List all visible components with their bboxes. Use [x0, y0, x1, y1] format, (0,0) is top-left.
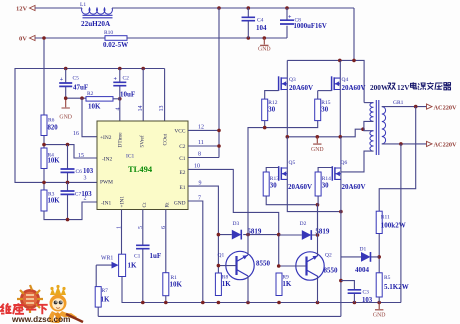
- wire pin 9 E1 to Q1 base branch: [188, 186, 218, 273]
- svg-text:C3: C3: [363, 290, 370, 296]
- wire R11 to D1 junction: [378, 234, 380, 273]
- svg-text:GR1: GR1: [393, 100, 404, 106]
- wire R12 to gate rail: [264, 121, 266, 128]
- svg-text:Ct: Ct: [142, 202, 148, 208]
- svg-text:10K: 10K: [48, 198, 61, 205]
- junction dot C7 bottom: [66, 218, 70, 222]
- svg-text:103: 103: [362, 297, 373, 304]
- capacitor C2: [119, 69, 121, 122]
- junction dots top rails: [42, 6, 289, 40]
- resistor R9: [276, 273, 282, 296]
- svg-text:AC220V: AC220V: [434, 142, 458, 149]
- svg-text:Q2: Q2: [325, 253, 332, 259]
- capacitor C4: [247, 8, 249, 38]
- capacitor C3: [341, 281, 355, 303]
- junction dot Q1 base: [217, 264, 221, 268]
- ground GND bottom right: [375, 303, 383, 310]
- svg-text:6: 6: [161, 226, 167, 229]
- wire Q2 base: [279, 265, 307, 267]
- wire center tap rail: [287, 129, 364, 137]
- svg-text:C6: C6: [76, 169, 83, 175]
- resistor R15: [315, 99, 321, 121]
- junction dots 5Vref rail: [64, 67, 145, 71]
- svg-text:GND: GND: [373, 313, 386, 319]
- wire Q1 emitter to gate rail: [248, 121, 318, 255]
- transistor Q3 MOSFET: [286, 60, 288, 136]
- ground GND under C5: [62, 98, 70, 108]
- svg-text:12: 12: [198, 125, 204, 131]
- watermark mascot: [49, 285, 83, 323]
- svg-text:R6: R6: [48, 118, 55, 124]
- svg-text:20A60V: 20A60V: [342, 84, 366, 92]
- wire R6 to R4 junction: [43, 136, 45, 149]
- svg-text:R10: R10: [104, 30, 113, 36]
- wire secondary top lead AC220V: [382, 106, 427, 108]
- wire Q1 base: [218, 265, 236, 267]
- svg-text:1K: 1K: [128, 262, 138, 270]
- watermark dzsc badge: [17, 285, 43, 313]
- junction dots divider tap: [42, 143, 69, 147]
- wire Q1 collector to ground rail: [247, 276, 249, 303]
- svg-text:C2: C2: [123, 76, 130, 82]
- svg-text:WR1: WR1: [101, 256, 113, 262]
- svg-text:13: 13: [159, 106, 165, 112]
- svg-text:+: +: [60, 77, 64, 83]
- wire sense bottom rail: [98, 315, 341, 317]
- svg-text:1: 1: [117, 226, 123, 229]
- wire pin 8: [188, 157, 219, 159]
- resistor R13: [263, 172, 269, 196]
- ground GND center: [313, 137, 321, 144]
- wire R13 to lower gate rail: [266, 196, 317, 205]
- svg-text:14: 14: [138, 106, 144, 112]
- svg-text:30: 30: [321, 107, 328, 114]
- wire Q6 gate to R14: [318, 168, 332, 173]
- svg-text:9: 9: [199, 181, 202, 187]
- wire pin 16 connection: [82, 98, 97, 137]
- junction dots center rail: [286, 127, 365, 138]
- wire pin 13 connection: [164, 69, 166, 122]
- wire Q2 emitter junction to D2: [317, 205, 319, 235]
- svg-text:30: 30: [270, 183, 277, 190]
- junction dots ground rail: [141, 301, 381, 305]
- svg-text:C1: C1: [134, 254, 141, 260]
- wire VCC drop from 12V rail: [218, 8, 220, 158]
- svg-text:104: 104: [256, 24, 267, 32]
- svg-text:D2: D2: [300, 221, 307, 227]
- wire AC return to ground rail: [400, 144, 402, 303]
- svg-text:GND: GND: [174, 201, 186, 207]
- svg-text:10K: 10K: [88, 103, 101, 111]
- svg-text:200W: 200W: [370, 83, 389, 92]
- svg-text:10: 10: [194, 164, 200, 170]
- capacitor C6: [67, 145, 69, 183]
- svg-text:R12: R12: [268, 100, 277, 106]
- svg-text:R11: R11: [381, 215, 390, 221]
- svg-text:TL494: TL494: [128, 164, 153, 174]
- resistor R3: [41, 190, 47, 211]
- svg-text:5Vref: 5Vref: [139, 135, 146, 147]
- svg-text:+: +: [288, 15, 292, 21]
- svg-text:47uF: 47uF: [73, 84, 88, 92]
- svg-text:12V: 12V: [16, 6, 28, 13]
- svg-text:GND: GND: [59, 115, 72, 121]
- svg-text:+IN1: +IN1: [120, 196, 126, 208]
- svg-text:R5: R5: [384, 275, 391, 281]
- transistor Q4 MOSFET: [339, 60, 341, 136]
- diode D3: [218, 234, 278, 236]
- transistor Q6 MOSFET: [340, 137, 342, 212]
- svg-text:8550: 8550: [324, 267, 339, 275]
- svg-text:C5: C5: [73, 76, 80, 82]
- svg-text:AC220V: AC220V: [434, 104, 458, 111]
- svg-text:4004: 4004: [355, 266, 370, 274]
- svg-text:Q6: Q6: [341, 160, 348, 166]
- capacitor C8: [286, 8, 288, 38]
- node AC220V lower port: [427, 141, 433, 146]
- wire MOSFET drain rail to 12V: [287, 60, 364, 102]
- svg-text:15: 15: [78, 153, 84, 159]
- wire pin 1 to WR1: [121, 210, 123, 255]
- svg-text:30: 30: [322, 183, 329, 190]
- svg-text:D1: D1: [360, 247, 367, 253]
- wire Q5 gate to R13: [266, 168, 279, 173]
- svg-text:GND: GND: [311, 147, 324, 153]
- junction dots R2 node: [64, 96, 122, 100]
- svg-text:20A60V: 20A60V: [342, 183, 366, 191]
- svg-text:C4: C4: [257, 18, 264, 24]
- wire Q4 gate to R15: [318, 90, 332, 92]
- wire 0V rail after R10: [127, 37, 287, 39]
- junction dots drain rail: [338, 59, 356, 63]
- svg-text:Q3: Q3: [289, 77, 296, 83]
- wire 12V drop to MOSFET drain rail: [353, 8, 355, 60]
- junction dots secondary leads: [399, 105, 417, 146]
- svg-text:0V: 0V: [19, 36, 27, 43]
- watermark red text wei ku yi xia: [1, 303, 48, 314]
- wire pin 6 Rt to R1: [165, 210, 167, 273]
- svg-text:R14: R14: [322, 176, 331, 182]
- svg-text:GND: GND: [258, 47, 271, 53]
- ground GND top: [260, 38, 268, 45]
- wire pin 7 GND: [188, 201, 203, 303]
- wire AC sense drop to R11: [379, 107, 416, 212]
- wire R2 to pin4 node: [113, 98, 120, 100]
- wire WR1 wiper to R7: [96, 265, 111, 287]
- svg-text:7: 7: [198, 196, 201, 202]
- wire C5 to R2 node: [66, 97, 86, 99]
- svg-text:11: 11: [198, 140, 204, 146]
- svg-text:20A60V: 20A60V: [288, 183, 312, 191]
- svg-text:8: 8: [198, 152, 201, 158]
- svg-text:820: 820: [48, 125, 59, 132]
- svg-text:8550: 8550: [256, 260, 271, 268]
- wire pin 12 VCC: [188, 129, 219, 131]
- capacitor C5: [65, 69, 67, 99]
- svg-text:10K: 10K: [170, 281, 183, 289]
- svg-text:1uF: 1uF: [150, 252, 162, 260]
- wire Q2 collector to ground rail: [317, 277, 319, 303]
- wire secondary bottom lead AC220V: [382, 143, 427, 145]
- svg-text:+IN2: +IN2: [100, 135, 112, 141]
- svg-text:30: 30: [268, 107, 275, 114]
- svg-text:PWM: PWM: [100, 180, 113, 186]
- wire 0V drop to left divider chain: [43, 38, 45, 115]
- resistor R14: [315, 172, 321, 196]
- transformer GR1 secondary winding: [382, 107, 386, 144]
- svg-text:2: 2: [84, 196, 87, 202]
- resistor R12: [262, 99, 268, 121]
- svg-text:Rt: Rt: [165, 202, 171, 208]
- wire Q5 Q6 source net vertical: [340, 212, 342, 317]
- resistor R6: [41, 115, 47, 136]
- transistor Q2: [296, 252, 324, 280]
- junction dot D2 cathode: [316, 233, 320, 237]
- svg-text:1K: 1K: [222, 280, 232, 288]
- svg-text:1000uF16V: 1000uF16V: [294, 23, 327, 30]
- transformer core: [376, 100, 379, 155]
- wire 5Vref rail: [15, 69, 165, 183]
- transformer GR1 primary top winding: [364, 102, 373, 104]
- transformer GR1 primary bottom winding: [364, 129, 374, 131]
- svg-text:DTime: DTime: [118, 132, 124, 148]
- wire ground bottom rail: [122, 302, 402, 304]
- wire pin 5 Ct: [142, 210, 144, 303]
- svg-text:1K: 1K: [101, 296, 111, 304]
- wire primary bottom lead to Q6: [341, 151, 374, 172]
- svg-text:Q1: Q1: [218, 253, 225, 259]
- svg-text:4: 4: [116, 108, 122, 111]
- svg-text:-IN2: -IN2: [102, 157, 112, 163]
- svg-text:100k2W: 100k2W: [381, 222, 406, 230]
- svg-text:VCC: VCC: [174, 129, 185, 135]
- wire R5 bottom to ground rail: [378, 297, 380, 303]
- wire R3 bottom to pin 2: [44, 202, 97, 220]
- svg-text:0.02-5W: 0.02-5W: [103, 41, 128, 49]
- svg-text:C1: C1: [179, 156, 186, 162]
- junction dot Q2 base: [277, 264, 281, 268]
- resistor R4: [41, 148, 47, 169]
- svg-text:R15: R15: [321, 100, 330, 106]
- resistor R7: [95, 287, 101, 308]
- junction dots VCC tie: [217, 129, 221, 148]
- svg-text:D3: D3: [233, 221, 240, 227]
- svg-text:Q5: Q5: [289, 160, 296, 166]
- resistor R5: [376, 273, 382, 297]
- wire 0V rail to R10: [35, 37, 105, 39]
- svg-text:E2: E2: [180, 170, 186, 176]
- diode D2: [279, 234, 318, 236]
- svg-text:103: 103: [83, 168, 94, 175]
- wire Q2 emitter to lower gate rail: [317, 205, 319, 256]
- wire R4 bottom to PWM rail: [43, 169, 45, 191]
- junction dots D3 row: [217, 233, 281, 237]
- wire WR1 bottom: [121, 277, 123, 303]
- junction dot R12 gate rail: [263, 126, 267, 130]
- svg-text:IC1: IC1: [126, 154, 135, 160]
- svg-text:12V: 12V: [397, 83, 410, 92]
- wire Q3 gate to R12: [265, 91, 279, 100]
- svg-text:E1: E1: [180, 185, 186, 191]
- svg-text:L1: L1: [80, 2, 86, 8]
- svg-text:R13: R13: [270, 176, 279, 182]
- resistor R1: [163, 273, 169, 296]
- junction dot C3 branch: [339, 279, 343, 283]
- junction dots PWM rail: [42, 181, 69, 185]
- node AC220V upper port: [427, 104, 433, 109]
- resistor R8: [215, 273, 221, 296]
- svg-text:3: 3: [84, 176, 87, 182]
- transistor Q5 MOSFET: [287, 137, 341, 212]
- svg-text:C2: C2: [179, 144, 186, 150]
- svg-text:COut: COut: [163, 133, 169, 145]
- junction dot R11 R5 D1: [377, 255, 381, 259]
- potentiometer WR1: [119, 254, 126, 276]
- wire R14 to lower gate rail: [317, 196, 319, 205]
- svg-text:5: 5: [138, 226, 144, 229]
- svg-text:16: 16: [73, 131, 79, 137]
- svg-text:Q4: Q4: [342, 77, 349, 83]
- svg-text:www.dzsc.com: www.dzsc.com: [11, 315, 70, 324]
- svg-text:10uF: 10uF: [120, 91, 135, 99]
- svg-text:5.1K2W: 5.1K2W: [384, 283, 409, 291]
- svg-text:-IN1: -IN1: [101, 201, 111, 207]
- svg-text:+: +: [114, 77, 118, 83]
- wire 12V feed to L1: [35, 7, 82, 9]
- svg-text:R7: R7: [102, 288, 109, 294]
- svg-text:10K: 10K: [48, 158, 61, 165]
- diode D1: [341, 256, 379, 258]
- resistor R11: [376, 211, 382, 233]
- capacitor C1: [136, 245, 150, 248]
- wire primary center tap: [364, 121, 374, 129]
- svg-text:20A60V: 20A60V: [289, 84, 313, 92]
- transistor Q1: [226, 251, 254, 279]
- wire pin 10 E2 to Q2 base branch: [188, 169, 279, 266]
- svg-text:22uH20A: 22uH20A: [81, 20, 111, 28]
- wire pin 11: [188, 145, 219, 147]
- wire pin 14 connection: [142, 69, 144, 122]
- capacitor C7: [67, 182, 69, 219]
- wire divider tap to C6 and pin 15: [44, 145, 97, 158]
- wire 12V rail after L1: [112, 7, 354, 9]
- wire R7 bottom to sense rail: [97, 307, 99, 316]
- svg-text:1K: 1K: [282, 280, 292, 288]
- junction dots lower gate rail: [316, 203, 343, 214]
- op-amp U1 TL494 IC body: [97, 121, 188, 210]
